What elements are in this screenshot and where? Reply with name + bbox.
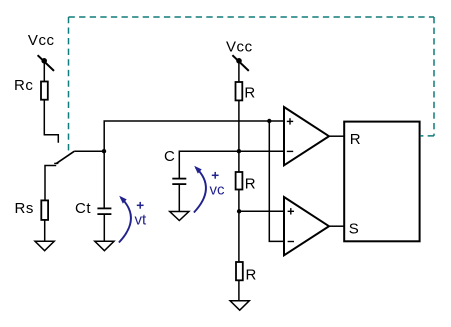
svg-text:R: R bbox=[246, 267, 257, 284]
wire C to ground bbox=[178, 184, 180, 212]
ground under Rs bbox=[35, 241, 54, 250]
wire U1 output to latch R bbox=[329, 135, 344, 137]
svg-text:Rs: Rs bbox=[15, 200, 34, 217]
svg-text:Ct: Ct bbox=[75, 200, 91, 217]
feedback dashed wire from latch output to switch control bbox=[69, 17, 435, 150]
latch U3 (SR flip-flop box) bbox=[344, 122, 419, 242]
resistor R1 bbox=[236, 82, 243, 100]
node junction R2/R3 to U2 + wire bbox=[237, 209, 241, 213]
capacitor C bbox=[172, 179, 186, 185]
resistor Rc bbox=[41, 82, 48, 100]
wire Vcc to Rc bbox=[43, 62, 45, 82]
resistor R3 bbox=[236, 262, 243, 280]
svg-text:S: S bbox=[349, 221, 359, 238]
switch lever foot tick bbox=[54, 162, 58, 164]
svg-text:R: R bbox=[350, 131, 361, 148]
op-amp comparator U1 bbox=[284, 107, 329, 165]
wire R1 to R2 bbox=[238, 100, 240, 172]
switch lower contact stub bbox=[45, 166, 56, 201]
power symbol Vcc center (diagonal bar with dot) bbox=[232, 55, 248, 71]
wire Vcc to R1 bbox=[238, 62, 240, 82]
ground under C bbox=[170, 212, 189, 221]
annotation arrow vc bbox=[194, 168, 206, 213]
minus sign U2 bbox=[288, 241, 294, 243]
plus sign U2 bbox=[288, 208, 294, 214]
ground under Ct bbox=[95, 241, 114, 250]
wire branch down to comparator U2 - input bbox=[269, 121, 284, 241]
svg-text:vc: vc bbox=[210, 182, 226, 199]
node junction on + wire (branch to U2 -) bbox=[267, 119, 271, 123]
wire junction to comparator U2 + input bbox=[239, 210, 284, 212]
plus sign of vt bbox=[137, 202, 144, 209]
wire U2 output to latch S bbox=[329, 225, 344, 227]
switch lever (discharge switch) bbox=[56, 151, 74, 163]
svg-text:Vcc: Vcc bbox=[226, 38, 253, 55]
svg-text:R: R bbox=[244, 84, 255, 101]
plus sign of vc bbox=[212, 172, 219, 179]
wire Rc to switch upper contact bbox=[44, 100, 58, 143]
svg-text:R: R bbox=[245, 176, 256, 193]
minus sign U1 bbox=[287, 150, 293, 152]
resistor Rs bbox=[41, 200, 48, 220]
svg-text:Vcc: Vcc bbox=[28, 32, 55, 49]
wire Rs to ground bbox=[44, 220, 46, 242]
node junction R string to U1 - wire bbox=[237, 149, 241, 153]
svg-text:vt: vt bbox=[135, 212, 148, 229]
wire node to Ct top plate bbox=[103, 151, 105, 208]
node junction at Ct bbox=[102, 149, 106, 153]
capacitor Ct bbox=[97, 208, 111, 214]
svg-text:C: C bbox=[164, 148, 175, 165]
ground under R3 bbox=[230, 301, 249, 310]
power symbol Vcc left (diagonal bar with dot) bbox=[38, 55, 54, 71]
wire R3 to ground bbox=[238, 280, 240, 301]
wire Ct to ground bbox=[103, 214, 105, 241]
wire R2 to R3 bbox=[238, 190, 240, 263]
wire Ct node up and over to comparator U1 + input bbox=[104, 121, 284, 151]
annotation arrow vt bbox=[119, 198, 131, 243]
wire switch common to Ct node bbox=[74, 150, 104, 152]
resistor R2 bbox=[236, 172, 243, 190]
wire C top to comparator U1 - input bbox=[179, 151, 284, 178]
plus sign U1 bbox=[287, 118, 293, 124]
op-amp comparator U2 bbox=[284, 197, 329, 255]
svg-text:Rc: Rc bbox=[14, 77, 33, 94]
